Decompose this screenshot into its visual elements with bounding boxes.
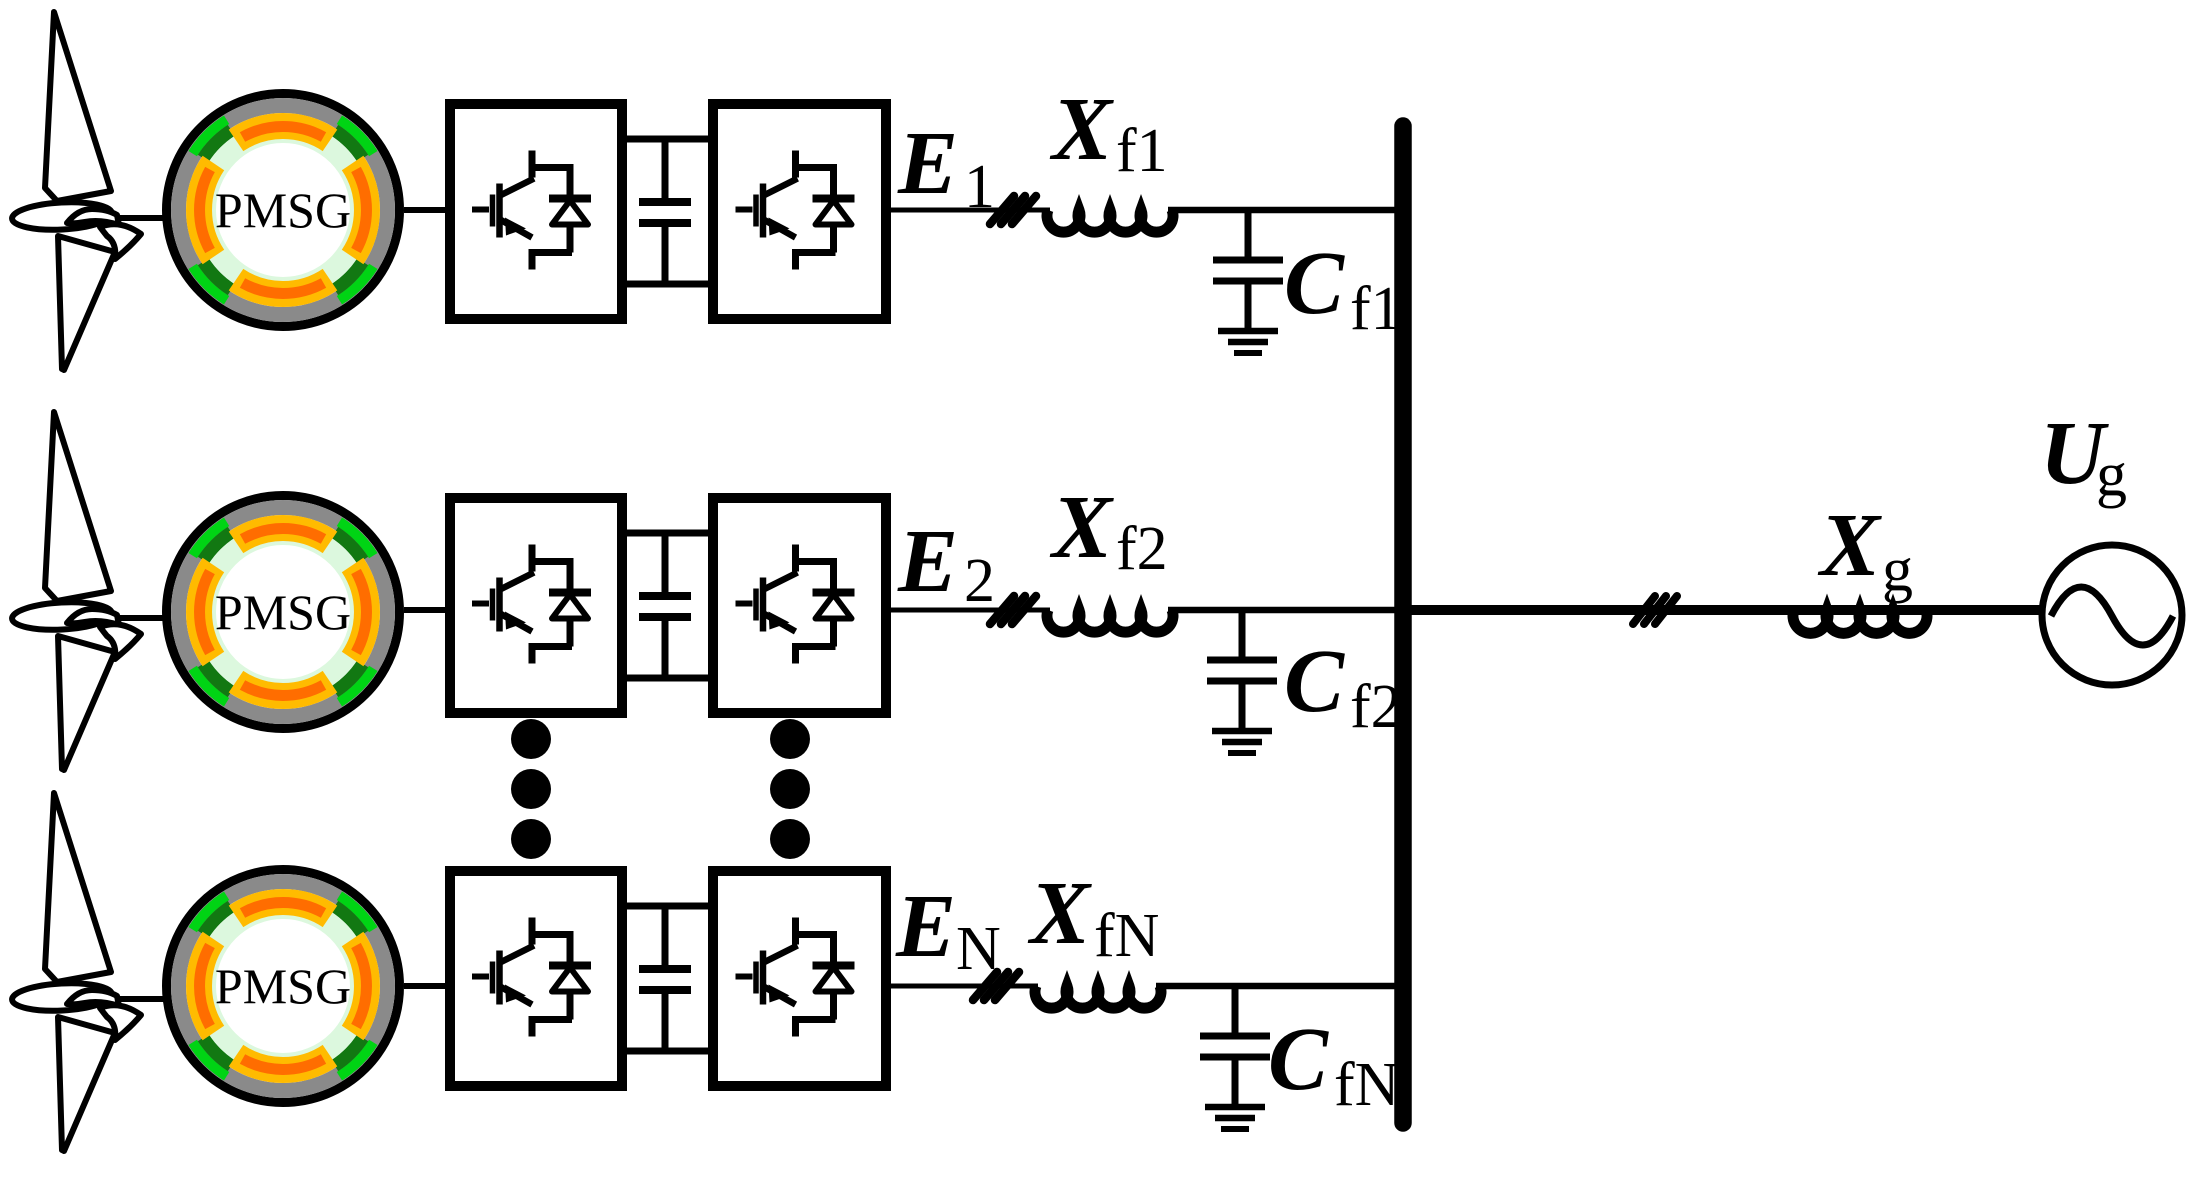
converter grid-side U1b IGBT symbol xyxy=(796,151,836,270)
capacitor CfN plates xyxy=(1200,1033,1270,1040)
wire dc-link rails row 3 xyxy=(620,903,715,910)
wind turbine WT2 blade left xyxy=(11,600,112,632)
svg-text:N: N xyxy=(956,915,1001,983)
converter machine-side U2a IGBT symbol xyxy=(532,545,572,664)
generator PMSG1 magnet segment green 45deg xyxy=(339,120,373,154)
ellipsis dots between converter rows (right column) xyxy=(770,719,810,759)
converter machine-side U1a box xyxy=(450,104,622,319)
wire dc-link rails row 1 xyxy=(620,136,715,143)
generator PMSG1 winding segment orange 270deg xyxy=(236,280,330,294)
ellipsis dots between converter rows (left column) xyxy=(511,719,551,759)
wire node E1 converter output xyxy=(886,208,1050,213)
generator PMSG2 magnet segment green 225deg xyxy=(193,668,227,702)
svg-text:C: C xyxy=(1268,1010,1329,1109)
ground symbol row 2 xyxy=(1212,728,1272,735)
generator PMSG2 magnet segment green 45deg xyxy=(339,522,373,556)
generator PMSG3 magnet segment green 315deg xyxy=(339,1042,373,1076)
ground symbol row 1 xyxy=(1218,328,1278,335)
wind turbine WT1 nacelle tail xyxy=(100,224,141,259)
converter grid-side U3b box xyxy=(713,871,886,1086)
wire inductor Xf2 to bus xyxy=(1168,607,1411,614)
line break symbol row 1 xyxy=(990,196,1036,224)
inductor Xf1 xyxy=(1047,210,1173,232)
svg-text:X: X xyxy=(1027,864,1092,963)
converter machine-side U2a box xyxy=(450,498,622,713)
wire PMSG 3 to machine-side converter xyxy=(404,983,452,989)
converter grid-side U1b box xyxy=(713,104,886,319)
generator PMSG3 winding segment orange 180deg xyxy=(199,939,213,1033)
ground symbol row N xyxy=(1205,1104,1265,1111)
svg-text:g: g xyxy=(1882,536,1913,604)
inductor XfN xyxy=(1035,986,1161,1008)
svg-text:X: X xyxy=(1817,496,1882,595)
generator PMSG3 winding segment orange 0deg xyxy=(353,939,367,1033)
svg-text:E: E xyxy=(895,877,956,976)
inductor Xg xyxy=(1793,610,1927,633)
svg-text:E: E xyxy=(897,512,958,611)
capacitor Cf2 plates xyxy=(1207,657,1277,664)
svg-text:X: X xyxy=(1049,80,1114,179)
generator PMSG2 winding segment orange 90deg xyxy=(236,528,330,542)
converter machine-side U1a IGBT symbol xyxy=(532,151,572,270)
capacitor dc-link C2 xyxy=(662,533,669,592)
wire shaft turbine 2 to PMSG xyxy=(117,615,172,621)
generator PMSG2 winding segment orange 0deg xyxy=(353,565,367,659)
wire inductor Xf1 to bus xyxy=(1168,207,1411,214)
wind turbine WT3 hub nose cone xyxy=(67,990,119,1006)
svg-text:f1: f1 xyxy=(1350,275,1402,343)
converter machine-side U3a box xyxy=(450,871,622,1086)
generator PMSG2 winding segment orange 180deg xyxy=(199,565,213,659)
converter grid-side U3b IGBT symbol xyxy=(796,918,836,1037)
line break symbol grid line xyxy=(1633,596,1677,624)
voltage source Ug grid xyxy=(2042,545,2182,685)
wind turbine WT2 nacelle tail xyxy=(100,624,141,659)
generator PMSG1 stator gray ring xyxy=(179,106,388,315)
wind turbine WT2 blade down xyxy=(58,636,115,770)
wind turbine WT1 hub nose cone xyxy=(67,209,119,225)
wind turbine WT2 blade up xyxy=(45,412,111,601)
svg-text:PMSG: PMSG xyxy=(215,584,351,640)
generator PMSG3 magnet segment green 135deg xyxy=(193,896,227,930)
wire node E2 converter output xyxy=(886,608,1050,613)
generator PMSG3 inner mint ring xyxy=(214,917,353,1056)
generator PMSG2 magnet segment green 315deg xyxy=(339,668,373,702)
node PCC collection bus xyxy=(1394,126,1412,1123)
wind turbine WT3 blade left xyxy=(11,981,112,1013)
generator PMSG1 inner mint ring xyxy=(214,141,353,280)
inductor Xf2 xyxy=(1047,610,1173,632)
wind turbine WT1 blade left xyxy=(11,200,112,232)
generator PMSG1 magnet segment green 225deg xyxy=(193,266,227,300)
wire shaft turbine 1 to PMSG xyxy=(117,215,172,221)
wire PMSG 1 to machine-side converter xyxy=(404,207,452,213)
svg-text:f2: f2 xyxy=(1350,673,1402,741)
generator PMSG3 outer ring xyxy=(167,870,400,1103)
svg-text:fN: fN xyxy=(1334,1051,1399,1119)
line break symbol row 2 xyxy=(990,596,1036,624)
capacitor Cf1 plates xyxy=(1213,257,1283,264)
generator PMSG3 magnet segment green 225deg xyxy=(193,1042,227,1076)
generator PMSG1 magnet segment green 315deg xyxy=(339,266,373,300)
svg-text:PMSG: PMSG xyxy=(215,182,351,238)
wire node EN converter output xyxy=(886,984,1038,989)
wind turbine WT2 hub nose cone xyxy=(67,609,119,625)
wind turbine WT3 blade down xyxy=(58,1017,115,1151)
wire capacitor CfN stub xyxy=(1232,986,1239,1033)
capacitor dc-link C3 xyxy=(662,906,669,965)
voltage source Ug sine wave xyxy=(2051,587,2173,645)
generator PMSG1 winding segment orange 0deg xyxy=(353,163,367,257)
svg-text:1: 1 xyxy=(964,153,995,221)
wind turbine WT3 nacelle tail xyxy=(100,1005,141,1040)
generator PMSG1 outer ring xyxy=(167,94,400,327)
generator PMSG3 stator gray ring xyxy=(179,882,388,1091)
wind turbine WT3 blade up xyxy=(45,793,111,982)
generator PMSG2 outer ring xyxy=(167,496,400,729)
converter grid-side U2b box xyxy=(713,498,886,713)
wire capacitor Cf1 stub xyxy=(1245,210,1252,257)
generator PMSG2 stator gray ring xyxy=(179,508,388,717)
svg-text:g: g xyxy=(2096,441,2127,509)
svg-text:2: 2 xyxy=(964,547,995,615)
generator PMSG1 magnet segment green 135deg xyxy=(193,120,227,154)
svg-text:f1: f1 xyxy=(1116,117,1168,185)
capacitor dc-link C1 xyxy=(662,139,669,198)
wind turbine WT1 blade down xyxy=(58,236,115,370)
generator PMSG2 winding segment orange 270deg xyxy=(236,682,330,696)
converter grid-side U2b IGBT symbol xyxy=(796,545,836,664)
wire inductor XfN to bus xyxy=(1156,983,1411,990)
svg-text:E: E xyxy=(897,114,958,213)
wire shaft turbine 3 to PMSG xyxy=(117,996,172,1002)
svg-text:f2: f2 xyxy=(1116,515,1168,583)
wire capacitor Cf2 stub xyxy=(1239,610,1246,657)
generator PMSG3 magnet segment green 45deg xyxy=(339,896,373,930)
svg-text:C: C xyxy=(1284,234,1345,333)
wire bus to grid line xyxy=(1403,605,2046,615)
generator PMSG3 winding segment orange 270deg xyxy=(236,1056,330,1070)
wire dc-link rails row 2 xyxy=(620,530,715,537)
generator PMSG2 inner mint ring xyxy=(214,543,353,682)
svg-text:fN: fN xyxy=(1094,902,1159,970)
svg-text:X: X xyxy=(1049,478,1114,577)
svg-text:PMSG: PMSG xyxy=(215,958,351,1014)
generator PMSG2 magnet segment green 135deg xyxy=(193,522,227,556)
generator PMSG1 winding segment orange 180deg xyxy=(199,163,213,257)
wind turbine WT1 blade up xyxy=(45,12,111,201)
svg-text:C: C xyxy=(1284,632,1345,731)
generator PMSG1 winding segment orange 90deg xyxy=(236,126,330,140)
converter machine-side U3a IGBT symbol xyxy=(532,918,572,1037)
line break symbol row 3 xyxy=(973,972,1019,1000)
wire PMSG 2 to machine-side converter xyxy=(404,607,452,613)
generator PMSG3 winding segment orange 90deg xyxy=(236,902,330,916)
